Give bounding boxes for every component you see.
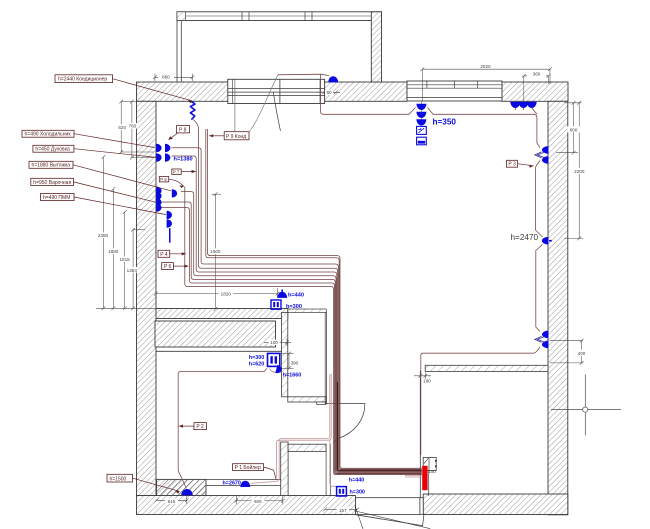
svg-text:h=440: h=440 — [349, 477, 364, 483]
text h=1380 — [174, 156, 193, 162]
socket kitchen g1 r1a — [156, 144, 161, 152]
entrance door leaf — [356, 514, 425, 526]
wire socket groupB riser — [516, 108, 537, 115]
text h=300 bathroom — [350, 489, 365, 495]
label h=490 Холодильник — [22, 130, 155, 147]
svg-text:h=620: h=620 — [249, 361, 264, 367]
label P4 — [158, 250, 186, 257]
wall kitchen-hall divider — [156, 309, 288, 319]
socket right wall pair1 a — [542, 146, 549, 154]
svg-text:760: 760 — [129, 124, 137, 129]
svg-text:h=1660: h=1660 — [283, 373, 301, 379]
wall top band left segment — [137, 82, 229, 101]
dim text 1515 — [118, 256, 132, 262]
bathroom left wall — [281, 442, 288, 496]
dim text 1600 — [208, 248, 223, 254]
bathroom right double edge — [326, 444, 330, 495]
balcony left wall double line — [177, 12, 181, 82]
svg-text:150: 150 — [429, 469, 437, 474]
svg-text:60: 60 — [326, 90, 332, 95]
svg-text:167: 167 — [339, 508, 347, 513]
dim text 100 — [269, 340, 280, 346]
shaft top thin band — [288, 309, 327, 313]
wire w8 — [161, 208, 422, 474]
svg-text:2200: 2200 — [574, 169, 585, 174]
socket h=440 kitchen wall — [277, 290, 287, 298]
dim text 605 — [251, 498, 264, 504]
wire boiler leader vertical — [244, 484, 246, 487]
socket trio top s2 — [519, 102, 529, 108]
svg-text:1880: 1880 — [108, 249, 119, 254]
svg-text:h=1500: h=1500 — [110, 476, 127, 482]
interior door head living room to hall — [326, 403, 365, 405]
hall top line — [156, 350, 282, 352]
balcony right pier — [371, 12, 381, 82]
socket stack h=350 s1 — [416, 104, 426, 110]
entrance leader line — [355, 506, 431, 529]
wall pilaster block bottom-left — [157, 479, 207, 495]
dim text 600 — [567, 126, 580, 132]
svg-text:180: 180 — [423, 378, 431, 383]
outlet box h=300 kitchen — [271, 300, 281, 309]
dim 2020 top — [420, 67, 552, 125]
svg-text:600: 600 — [570, 127, 578, 132]
text h=350 — [433, 118, 457, 127]
electrical panel red riser — [422, 466, 427, 490]
svg-text:P 2: P 2 — [196, 424, 204, 430]
socket kitchen g4 a — [167, 211, 172, 219]
dim text 2200 — [572, 168, 588, 174]
dim 100 hall — [264, 339, 291, 347]
svg-text:860: 860 — [162, 75, 170, 80]
dim text 2020 — [480, 64, 491, 69]
dim 1515 left — [123, 210, 127, 310]
dim 390 hall — [281, 352, 294, 371]
bedroom partition wall — [425, 365, 548, 371]
label P3 — [507, 160, 534, 168]
balcony door swing — [273, 92, 280, 130]
label h=450 Духовка — [33, 145, 156, 157]
socket right wall pair2 a — [542, 331, 549, 339]
socket trio top s3 — [527, 102, 537, 108]
dim text 60 — [325, 90, 333, 95]
label P9 Конд — [209, 75, 278, 140]
socket boiler — [240, 481, 250, 487]
dim 600 right — [556, 101, 581, 155]
svg-text:1600: 1600 — [210, 249, 221, 254]
dim text 2380 — [96, 232, 110, 238]
bedroom west wall line — [419, 371, 421, 497]
dim 360 top — [522, 74, 551, 101]
shaft foot — [317, 402, 326, 405]
wire living room perimeter top — [321, 74, 537, 143]
wire w9 — [185, 187, 422, 475]
text h=300 hall — [249, 355, 264, 361]
dim 620 kitchen — [119, 100, 154, 154]
socket h=2470 — [542, 237, 552, 245]
wall top band middle segment — [325, 82, 407, 101]
svg-text:P 8: P 8 — [179, 127, 187, 133]
socket trio top s1 — [510, 102, 520, 108]
text h=620 hall — [249, 361, 264, 367]
shaft left wall — [282, 313, 288, 397]
svg-text:h=2470: h=2470 — [511, 233, 539, 242]
shaft right double edge — [325, 313, 326, 404]
dim text 167 — [337, 507, 350, 513]
label h=1880 Вытяжка — [29, 161, 171, 191]
window balcony-door unit — [228, 79, 325, 103]
text h=2670 — [223, 480, 241, 486]
svg-text:h=300: h=300 — [286, 304, 302, 310]
wire hall loop — [178, 368, 267, 488]
svg-text:h=300: h=300 — [350, 489, 365, 495]
dim 2200 right — [564, 101, 583, 240]
socket kitchen g1 r2a — [156, 153, 161, 161]
wire w7 — [161, 202, 422, 473]
svg-text:1354: 1354 — [127, 268, 138, 273]
text h=300 — [286, 304, 302, 310]
socket bottom-left — [181, 489, 193, 495]
svg-text:P 3: P 3 — [508, 162, 516, 168]
dim 167 bottom — [323, 507, 359, 511]
svg-text:h=300: h=300 — [249, 355, 264, 361]
dim text 860 — [158, 74, 174, 80]
wire thick core into panel — [337, 382, 421, 471]
panel drop line — [429, 469, 437, 496]
socket stack h=350 s3 — [416, 119, 426, 125]
svg-text:620: 620 — [118, 125, 126, 130]
text h=2470 — [511, 233, 539, 242]
dim 605 bottom — [234, 496, 284, 504]
wire w4 conditioner squiggle feed — [193, 120, 421, 471]
svg-text:h=440: h=440 — [288, 292, 304, 298]
TV outlet box — [417, 126, 427, 134]
text h=1660 — [283, 373, 301, 379]
label h=2440 Кондиционер — [55, 75, 192, 103]
dim text 180 — [423, 378, 431, 383]
svg-text:P 6: P 6 — [164, 264, 172, 270]
svg-text:2020: 2020 — [480, 64, 491, 69]
svg-text:h=1880 Вытяжка: h=1880 Вытяжка — [32, 163, 71, 169]
dim 1354 left — [131, 228, 145, 310]
text h=440 corridor — [349, 477, 364, 483]
wire pink to bath socket — [330, 440, 336, 486]
socket right wall pair1 b — [535, 152, 549, 164]
dim text 620 — [116, 124, 128, 130]
svg-text:h=450 Духовка: h=450 Духовка — [35, 147, 70, 153]
svg-text:1515: 1515 — [119, 257, 130, 262]
wall left — [137, 101, 157, 495]
label P5 — [159, 177, 184, 189]
outlet box hall — [268, 353, 280, 366]
wire w5 — [172, 156, 422, 472]
dim text 1880 — [107, 248, 121, 254]
wall bottom left segment — [137, 496, 356, 515]
svg-text:360: 360 — [533, 72, 541, 77]
socket right wall pair2 b — [535, 336, 549, 348]
svg-text:P 1 Бойлер: P 1 Бойлер — [235, 464, 261, 471]
dim 1600 kitchen — [212, 192, 222, 310]
svg-text:P 4: P 4 — [160, 252, 168, 258]
socket kitchen g4 b — [167, 219, 172, 227]
dim 60 at window — [316, 90, 340, 94]
ledge lines right of pilaster — [206, 479, 288, 485]
window living room — [407, 81, 502, 101]
label P1 Бойлер — [233, 464, 277, 480]
svg-text:P 7: P 7 — [173, 169, 180, 174]
interior door swing arc — [334, 405, 365, 443]
svg-text:h=350: h=350 — [433, 118, 457, 127]
dim bottom line for left stack — [96, 307, 156, 309]
shaft bottom band — [288, 397, 327, 402]
text h=440 — [288, 292, 304, 298]
dim text 400 — [577, 350, 588, 357]
socket stack h=350 s2 — [416, 112, 426, 118]
dim text 1820 — [219, 291, 234, 297]
socket kitchen g1 r2b — [165, 153, 170, 161]
dim text 760 — [127, 123, 138, 129]
wire kitchen bundle w1 conditioner pair — [206, 129, 422, 469]
dim 2380 left — [102, 155, 106, 310]
socket kitchen g2 a — [156, 187, 161, 195]
entrance door opening — [356, 498, 424, 515]
label h=490 ПММ — [41, 193, 167, 214]
dim 860 balcony — [153, 74, 194, 82]
label P7 — [172, 169, 196, 174]
dim 1820 kitchen — [154, 288, 280, 297]
svg-text:h=490 Холодильник: h=490 Холодильник — [25, 132, 72, 138]
wire pink pair bath corridor — [251, 374, 332, 483]
wall bottom right segment — [423, 494, 568, 515]
svg-text:h=1380: h=1380 — [174, 156, 193, 162]
socket kitchen g2 b — [156, 192, 161, 200]
dim 760 kitchen — [130, 100, 154, 160]
socket kitchen g2 offset — [172, 189, 177, 197]
wall right — [548, 101, 568, 515]
svg-text:390: 390 — [291, 361, 299, 366]
label h=950 Варочная — [31, 178, 156, 202]
dim 180 bedroom — [414, 373, 431, 380]
svg-text:605: 605 — [254, 499, 262, 504]
dim text 390 — [289, 360, 300, 366]
svg-text:100: 100 — [270, 340, 278, 345]
svg-text:615: 615 — [168, 499, 176, 504]
conditioner drop squiggle — [190, 101, 195, 120]
dim text 615 — [165, 498, 178, 504]
wall top band right segment — [502, 82, 568, 101]
socket kitchen g4 stem — [169, 228, 171, 243]
svg-text:h=2670: h=2670 — [223, 480, 241, 486]
wire bundle w3 — [172, 148, 422, 470]
axis marker crosshair — [551, 374, 621, 435]
wire pink pair into panel — [405, 475, 422, 477]
wire w6 — [181, 192, 422, 473]
socket hall h=1660 — [275, 365, 282, 375]
svg-text:2380: 2380 — [98, 233, 109, 238]
svg-text:h=490 ПММ: h=490 ПММ — [43, 195, 70, 201]
wardrobe hatched block — [155, 321, 276, 347]
data outlet box — [417, 137, 427, 145]
socket kitchen g1 r1b — [165, 144, 170, 152]
svg-text:P 9 Конд: P 9 Конд — [226, 134, 246, 140]
outlet box bathroom — [337, 487, 347, 496]
wire hall socket link — [270, 368, 282, 372]
bathroom top band — [288, 444, 326, 451]
balcony top glazing band — [177, 12, 382, 21]
label P6 — [162, 263, 189, 271]
wire top window socket feed — [278, 74, 329, 75]
svg-text:h=2440 Кондиционер: h=2440 Кондиционер — [58, 77, 107, 83]
electrical panel box — [423, 458, 437, 471]
dim text 1354 — [125, 267, 139, 273]
socket kitchen g3 a — [156, 198, 161, 206]
wire right wall run — [421, 143, 543, 455]
socket kitchen g3 b — [156, 203, 161, 211]
label P2 — [179, 423, 207, 431]
dim 1880 left — [111, 187, 115, 310]
svg-text:P 5: P 5 — [160, 177, 167, 182]
dim 615 bottom-left — [155, 496, 189, 504]
dim text 360 — [527, 71, 546, 77]
socket balcony wall — [328, 76, 338, 82]
svg-text:400: 400 — [578, 351, 586, 356]
label h=1500 — [107, 474, 180, 493]
svg-text:h=950 Варочная: h=950 Варочная — [33, 180, 71, 186]
label P8 — [169, 126, 190, 140]
dim 400 right — [550, 339, 584, 365]
svg-text:1820: 1820 — [221, 291, 232, 296]
